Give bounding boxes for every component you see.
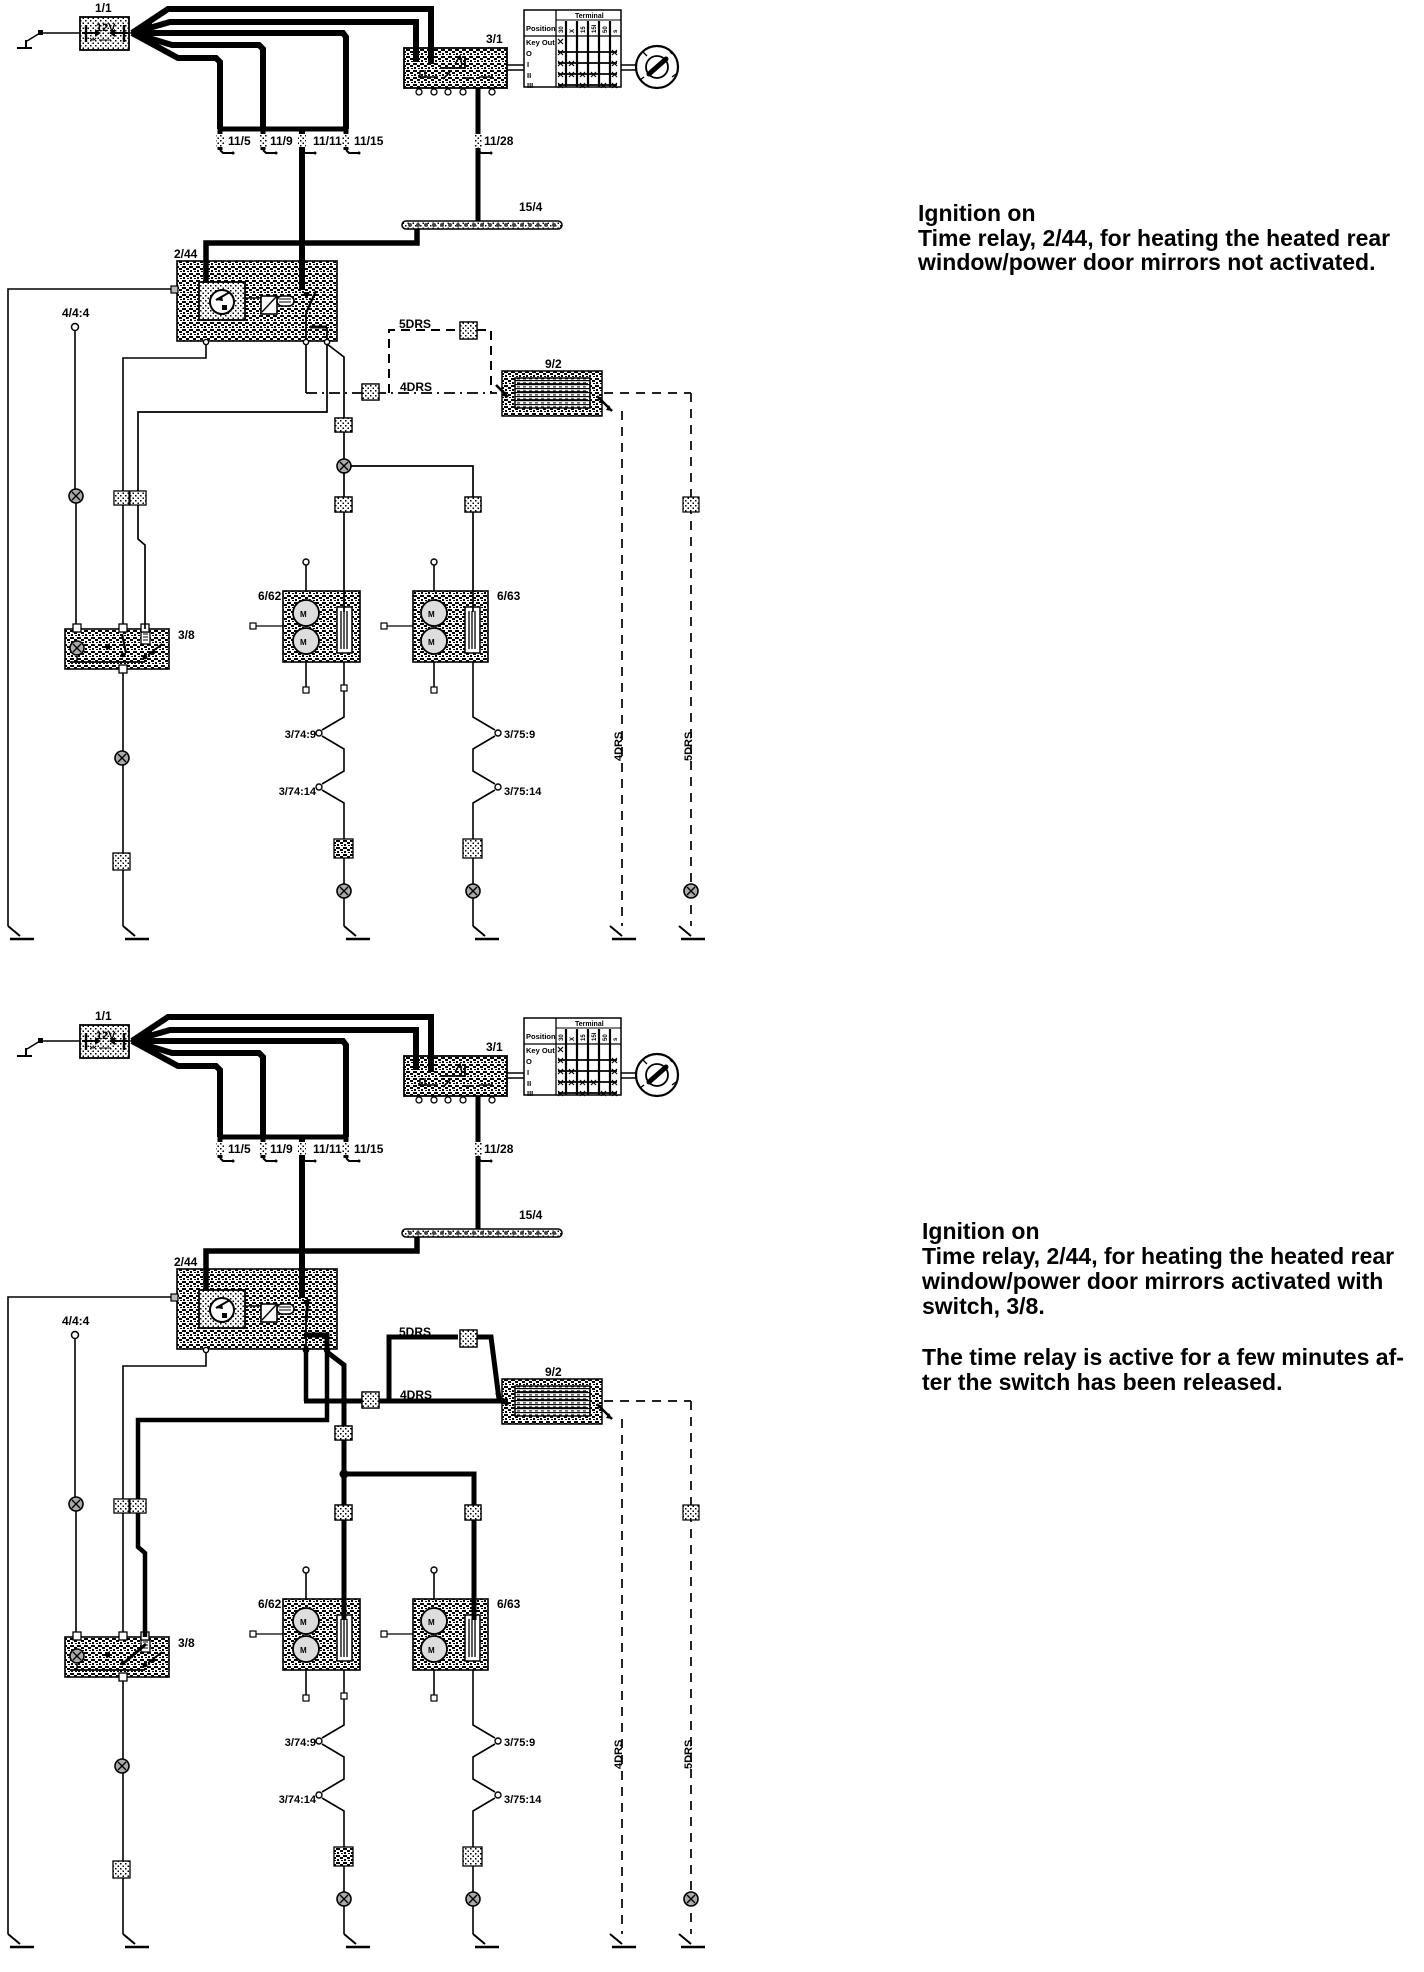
svg-text:switch, 3/8.: switch, 3/8. bbox=[922, 1293, 1045, 1319]
svg-text:ter the switch has been releas: ter the switch has been released. bbox=[922, 1369, 1282, 1395]
svg-text:window/power door mirrors not: window/power door mirrors not activated. bbox=[917, 249, 1376, 275]
svg-text:window/power door mirrors acti: window/power door mirrors activated with bbox=[921, 1268, 1383, 1294]
svg-text:Time relay, 2/44, for heating: Time relay, 2/44, for heating the heated… bbox=[918, 225, 1390, 251]
svg-text:The time relay is active for a: The time relay is active for a few minut… bbox=[922, 1344, 1404, 1370]
svg-text:Ignition on: Ignition on bbox=[922, 1218, 1040, 1244]
svg-text:Time relay, 2/44, for heating: Time relay, 2/44, for heating the heated… bbox=[922, 1243, 1394, 1269]
svg-text:Ignition on: Ignition on bbox=[918, 200, 1036, 226]
